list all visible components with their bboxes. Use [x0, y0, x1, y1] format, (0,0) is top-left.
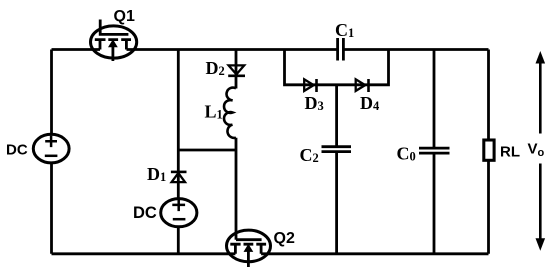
svg-text:DC: DC	[133, 204, 157, 222]
svg-text:C0: C0	[397, 143, 416, 163]
svg-text:RL: RL	[500, 144, 520, 161]
svg-text:DC: DC	[6, 142, 28, 159]
wire bottom rail	[52, 252, 489, 255]
DC source V2 (middle)	[161, 199, 197, 227]
node Vo arrow	[536, 51, 546, 251]
wire top rail	[52, 48, 489, 51]
diode D3	[304, 79, 316, 92]
wire C2 branch	[335, 85, 338, 254]
inductor L1	[224, 88, 236, 138]
svg-text:C2: C2	[300, 145, 319, 165]
svg-text:D1: D1	[147, 164, 166, 184]
wire link node between D1 and L1	[178, 149, 236, 152]
capacitor C0	[419, 148, 450, 153]
transistor Q2 (MOSFET)	[227, 230, 271, 267]
svg-text:C1: C1	[335, 20, 354, 40]
DC source V1 (left)	[33, 134, 69, 163]
svg-text:Q2: Q2	[274, 230, 295, 247]
svg-text:Q1: Q1	[114, 8, 135, 25]
capacitor C1	[338, 38, 344, 61]
diode D1	[171, 172, 187, 182]
wire left rail	[50, 50, 53, 254]
diode D4	[356, 79, 369, 92]
diode D2	[228, 65, 245, 75]
svg-text:Vo: Vo	[528, 140, 545, 159]
svg-text:D2: D2	[206, 58, 225, 78]
svg-text:L1: L1	[205, 102, 223, 122]
wire right rail	[487, 50, 490, 254]
svg-text:D4: D4	[360, 93, 380, 113]
wire D3-D4 loop	[285, 50, 389, 85]
svg-text:D3: D3	[305, 93, 324, 113]
wire D2-L1 branch	[235, 50, 238, 240]
wire D1-DC branch	[177, 50, 180, 254]
transistor Q1 (MOSFET)	[91, 20, 137, 62]
resistor RL	[484, 140, 494, 160]
wire C0 branch	[433, 50, 436, 254]
capacitor C2	[322, 147, 352, 152]
